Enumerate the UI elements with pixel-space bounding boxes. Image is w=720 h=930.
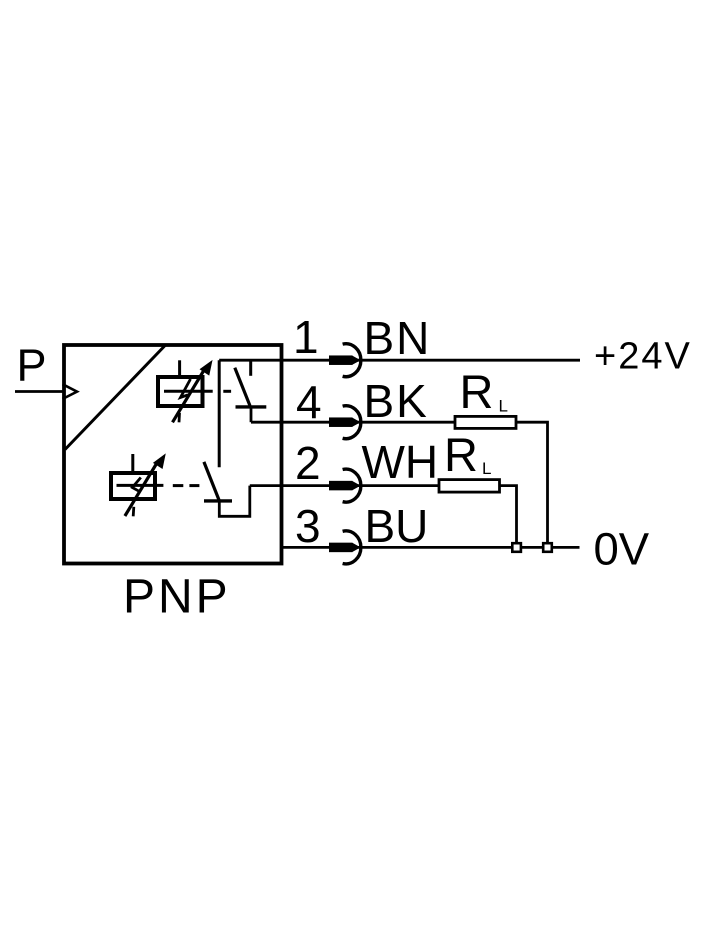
connector pin 3 xyxy=(329,531,361,564)
resistor RL1 xyxy=(455,416,516,428)
svg-text:BU: BU xyxy=(365,500,429,552)
svg-text:4: 4 xyxy=(296,376,322,428)
adjuster A2 arrow xyxy=(125,455,165,517)
svg-text:PNP: PNP xyxy=(123,571,231,624)
value label RL2 xyxy=(444,428,491,481)
svg-text:R: R xyxy=(444,428,478,481)
wire pin3 to 0V xyxy=(282,546,580,549)
svg-text:L: L xyxy=(482,459,491,478)
set-point adjuster A2 box xyxy=(111,454,163,499)
pressure input arrow xyxy=(15,384,77,399)
wire pin4 to node xyxy=(517,422,548,547)
resistor RL2 xyxy=(439,480,500,493)
svg-text:0V: 0V xyxy=(594,524,650,575)
wire pin4 xyxy=(251,421,455,424)
supply rail inside box xyxy=(218,360,221,467)
switch contact S1 xyxy=(235,360,266,422)
svg-text:+24V: +24V xyxy=(594,335,692,377)
junction node J2 xyxy=(543,543,552,552)
svg-text:R: R xyxy=(460,365,494,418)
connector pin 1 xyxy=(329,344,361,377)
wire pin2 xyxy=(250,484,439,487)
switch contact S2 xyxy=(204,462,250,516)
svg-text:L: L xyxy=(499,397,508,416)
junction node J1 xyxy=(512,543,521,552)
connector pin 4 xyxy=(329,406,361,439)
wire pin1 to +24V xyxy=(219,359,580,362)
connector pin 2 xyxy=(329,469,361,502)
actuation dash link S2 xyxy=(173,484,200,487)
wire pin2 to node xyxy=(500,486,516,548)
svg-text:2: 2 xyxy=(295,437,321,489)
svg-text:WH: WH xyxy=(362,436,439,488)
actuation dash link S1 xyxy=(223,390,231,393)
svg-text:BK: BK xyxy=(364,375,429,427)
value label RL1 xyxy=(460,365,508,418)
svg-text:3: 3 xyxy=(295,500,321,552)
svg-text:1: 1 xyxy=(293,311,319,363)
pressure sensor diagonal xyxy=(65,345,166,450)
sensor box U1 xyxy=(64,345,282,564)
svg-text:P: P xyxy=(17,339,47,390)
adjuster A1 arrow xyxy=(173,361,212,422)
set-point adjuster A1 box xyxy=(158,360,213,406)
svg-text:BN: BN xyxy=(364,312,432,364)
